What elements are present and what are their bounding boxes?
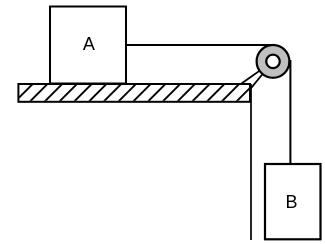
pulley U1: axle hub	[266, 55, 279, 68]
wire: string from pulley down to block B	[289, 60, 291, 164]
table (hatched top)	[15, 84, 254, 102]
svg-text:A: A	[83, 34, 95, 54]
table hatching	[15, 84, 254, 102]
table leg / support line down to block B level	[250, 84, 252, 240]
pulley bracket (V-yoke from table corner to axle)	[242, 61, 274, 90]
block A	[50, 7, 126, 84]
svg-text:B: B	[285, 192, 297, 212]
block B	[265, 164, 321, 239]
pulley U1: outer wheel	[257, 45, 290, 78]
wire: string from block A to pulley	[126, 44, 273, 46]
